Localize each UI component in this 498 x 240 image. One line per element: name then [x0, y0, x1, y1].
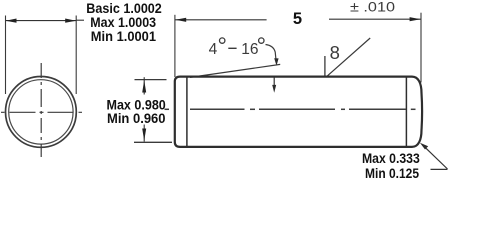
extension line right of length dim	[420, 13, 422, 83]
arrow below top edge at taper vertex	[273, 77, 275, 87]
dash between angles	[228, 47, 236, 49]
small end dim down arrowhead	[142, 129, 146, 141]
svg-text:Min 1.0001: Min 1.0001	[91, 28, 156, 44]
svg-text:Min 0.125: Min 0.125	[365, 165, 419, 181]
end view inner circle	[9, 80, 73, 144]
leader to Max 1.0003 text	[76, 19, 84, 21]
svg-text:Max 0.333: Max 0.333	[362, 150, 420, 166]
svg-text:16: 16	[241, 41, 258, 58]
circle vertical centerline	[40, 63, 42, 157]
crown radius leader horizontal	[431, 168, 448, 170]
length dim line left segment	[175, 19, 267, 21]
svg-text:8: 8	[330, 42, 340, 63]
length dim right arrowhead	[410, 17, 421, 21]
pin body outline	[175, 77, 422, 147]
degree circle after 4	[220, 38, 225, 43]
degree circle after 16	[259, 38, 264, 43]
extension line right of diameter dim	[75, 16, 77, 95]
length dim line right segment	[329, 18, 421, 20]
svg-text:4: 4	[209, 41, 218, 58]
circle horizontal centerline	[1, 111, 84, 113]
small end dim top extension bar	[135, 79, 167, 81]
length dim left arrowhead	[175, 18, 186, 22]
angle leader arrowhead	[274, 58, 278, 66]
crown radius leader arrowhead	[420, 143, 428, 150]
end view outer circle	[6, 77, 77, 148]
small end dim line upper segment	[143, 77, 145, 94]
gauge tick for 8	[324, 56, 326, 77]
taper angle line	[190, 64, 280, 77]
taper pin engineering drawing	[0, 0, 498, 183]
small end dim up arrowhead	[142, 80, 146, 92]
leader diagonal for 8	[326, 38, 370, 77]
svg-text:Min 0.960: Min 0.960	[107, 110, 166, 126]
diameter dim right arrowhead	[65, 19, 76, 23]
crown radius leader diagonal	[425, 147, 448, 169]
left crown tangent line	[186, 77, 188, 147]
diameter dim left arrowhead	[6, 19, 17, 23]
diameter dimension line	[6, 20, 77, 22]
extension line left of diameter dim	[5, 16, 7, 95]
pin centerline	[165, 108, 416, 110]
small end dim bottom extension bar	[134, 141, 172, 143]
small end dim line lower segment	[143, 125, 145, 142]
right crown tangent line	[405, 77, 407, 147]
extension line left of length dim	[174, 15, 176, 77]
leader from 16 deg to taper line	[266, 45, 277, 62]
svg-text:5: 5	[293, 10, 302, 28]
svg-text:± .010: ± .010	[350, 0, 395, 16]
